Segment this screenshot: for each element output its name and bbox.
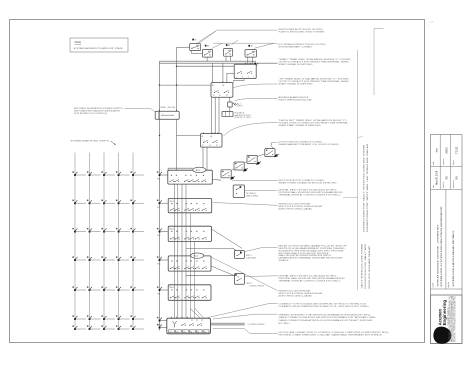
svg-text:checked by: checked by — [453, 180, 455, 188]
pushbutton S1 (shutdown button) — [190, 39, 201, 51]
wire bus drop to TD1 A1 — [211, 63, 213, 82]
LED indicator grid r1c4 — [116, 171, 130, 176]
wire S2 drop to bus — [206, 57, 208, 61]
note no-volume connection — [279, 332, 390, 337]
wire feed to RO1 — [186, 248, 236, 250]
svg-text:8P8C 2: 8P8C 2 — [247, 283, 252, 285]
LED pilot light PL6 on rail — [157, 317, 167, 327]
arrow at K2 — [242, 167, 248, 173]
wire relay column bus 1 — [174, 184, 176, 318]
wire siren to PS2 — [229, 107, 231, 112]
svg-text:May 28, 2014: May 28, 2014 — [437, 170, 439, 185]
title block outline — [431, 135, 463, 344]
note interlock latch relay 2 — [279, 290, 324, 298]
svg-text:RL-1: RL-1 — [196, 170, 200, 172]
svg-text:TS-1 (DEV 4): TS-1 (DEV 4) — [246, 193, 256, 195]
svg-text:S4: S4 — [251, 46, 253, 48]
title block divider v2 upper — [449, 135, 451, 190]
svg-text:BY SFU: BY SFU — [279, 323, 291, 325]
svg-text:X6: X6 — [204, 331, 206, 333]
svg-text:WITH MOMENTARY CONTACT: WITH MOMENTARY CONTACT — [279, 45, 314, 48]
arrow at K1 — [229, 175, 235, 181]
title cell drawn by — [442, 176, 449, 188]
LED indicator grid r4c5 — [130, 256, 144, 261]
note relay output board — [279, 244, 348, 262]
arrow at K3 — [255, 160, 261, 166]
LED pilot light PL5 on rail — [157, 286, 168, 295]
LED indicator grid r7c5 — [130, 325, 144, 330]
svg-text:S1: S1 — [194, 39, 196, 41]
wire feed to DI box — [186, 275, 235, 277]
leader annotation 5 curve — [235, 98, 278, 101]
LED indicator grid r4c1 — [72, 256, 86, 261]
node junction feed at x=176.5 — [176, 84, 177, 85]
bracket line upper — [374, 28, 384, 95]
LED indicator grid r6c1 — [72, 315, 86, 320]
svg-text:6603: 6603 — [444, 147, 448, 154]
LED pilot light PL4 on rail — [157, 256, 168, 265]
svg-text:PIEZO SIREN (STM 6027-A): PIEZO SIREN (STM 6027-A) — [279, 99, 312, 102]
svg-text:RL-5: RL-5 — [170, 287, 174, 289]
leader annotation 12 — [244, 275, 277, 278]
leader S2 tag diagonal — [212, 43, 223, 48]
wire LED column 4 vertical — [118, 153, 120, 330]
LED indicator grid r6c4 — [116, 315, 130, 320]
svg-text:RL-3: RL-3 — [170, 229, 174, 231]
svg-text:INTERLOCK SYSTEM FOR NEUTRON G: INTERLOCK SYSTEM FOR NEUTRON GENERATOR — [440, 206, 443, 287]
note thermo scientific — [279, 313, 377, 324]
digital input box DI-108 — [235, 274, 265, 288]
svg-text:TO CONTROL CONSOLE: TO CONTROL CONSOLE — [248, 324, 265, 326]
LED indicator grid r4c2 — [87, 256, 101, 261]
wire diagonal into TB1 b — [195, 309, 204, 319]
wire horizontal into TD3 — [177, 134, 201, 136]
wire into RL1 coil — [168, 168, 193, 170]
LED indicator grid r6c3 — [101, 315, 115, 320]
svg-text:WHEN MAGNET PRESENT (I.E. DOOR: WHEN MAGNET PRESENT (I.E. DOOR CLOSED) — [279, 143, 339, 146]
logo Acumen blob — [433, 327, 451, 344]
title cell dwg no — [453, 146, 459, 165]
svg-text:X5: X5 — [197, 331, 199, 333]
svg-text:05.28: 05.28 — [430, 22, 434, 24]
wire K3 to K4 — [257, 154, 265, 156]
svg-text:CONNECTIONS FOR “WEST” AND “LA: CONNECTIONS FOR “WEST” AND “LAB” ZONES A… — [366, 143, 369, 232]
note door position — [279, 141, 339, 147]
svg-text:FOR INTERLOCK CONTROL): FOR INTERLOCK CONTROL) — [74, 113, 107, 115]
vertical note group 2 — [361, 243, 371, 289]
leader annotation 2 — [213, 42, 278, 44]
annotation PSU text — [74, 107, 124, 115]
LED indicator grid r6c5 — [130, 315, 144, 320]
LED indicator grid r3c3 — [101, 228, 115, 233]
wire relay column bus 3 — [181, 184, 183, 318]
svg-text:PL2: PL2 — [157, 207, 160, 209]
cable pair to control console — [210, 323, 264, 326]
power adapter PS2 — [222, 112, 252, 120]
wire TD1 pin16 drop — [214, 97, 216, 133]
svg-text:PL4: PL4 — [157, 264, 160, 266]
leader annotation 11 diagonal — [244, 248, 277, 252]
svg-text:PS-2 (DEV 2): PS-2 (DEV 2) — [235, 113, 245, 115]
svg-text:(IDEC RF1V-24VDC-2A2B): (IDEC RF1V-24VDC-2A2B) — [279, 295, 312, 298]
wire LED column 5 vertical — [132, 153, 134, 330]
wire K4 to door annotation — [271, 143, 274, 149]
svg-text:S2: S2 — [207, 45, 209, 47]
svg-text:scale: scale — [433, 161, 435, 165]
label system status LED lights — [71, 140, 116, 145]
wire RL1 to K1 — [212, 178, 221, 181]
wire TD1 to siren — [229, 97, 231, 102]
svg-text:START SIGNAL IS SUPPLIED: START SIGNAL IS SUPPLIED — [279, 83, 314, 86]
latch relay RL2 — [168, 199, 212, 213]
svg-text:INTERLOCK ZONE ARE SIMILAR: INTERLOCK ZONE ARE SIMILAR — [368, 245, 371, 289]
LED indicator grid r3c5 — [130, 228, 144, 233]
wire LED column 2 vertical — [89, 153, 91, 330]
drawing border frame — [10, 20, 425, 343]
LED indicator grid r7c4 — [116, 325, 130, 330]
LED indicator grid r6c2 — [87, 315, 101, 320]
title cell dwg title — [447, 230, 455, 288]
LED pilot light PL3 on rail — [157, 228, 168, 237]
LED indicator grid r2c5 — [130, 200, 144, 205]
title block divider h2 — [431, 188, 463, 190]
leader annotation 9 tick — [343, 197, 358, 199]
latch relay RL5 — [168, 285, 211, 301]
note box — [70, 38, 128, 52]
wire S4 drop to relay TD2 — [248, 57, 253, 64]
title block divider h3 — [431, 288, 463, 290]
wire TD1 pin18 drop — [218, 97, 220, 133]
wire TD1 coil feed y=85.1 — [160, 84, 212, 86]
note motion detector — [279, 179, 338, 185]
LED indicator grid r3c4 — [116, 228, 130, 233]
latch relay RL4 — [168, 253, 211, 271]
svg-text:PS-1B: PS-1B — [161, 107, 167, 109]
LED pilot light PL2 on rail — [157, 200, 168, 209]
note th timer — [279, 78, 350, 86]
svg-text:PL5: PL5 — [157, 294, 160, 296]
LED indicator grid r5c4 — [116, 286, 130, 291]
door contact K2 — [234, 162, 244, 170]
svg-text:PL1: PL1 — [157, 179, 160, 181]
LED indicator grid r3c2 — [87, 228, 101, 233]
leader annotation 1 — [197, 30, 278, 43]
svg-text:X3: X3 — [183, 331, 185, 333]
wire TD2 input link — [227, 73, 234, 82]
note digital input 2 — [279, 275, 346, 283]
wire relay column bus 6 — [194, 242, 196, 319]
leader S3 tag diagonal — [232, 40, 239, 45]
svg-text:S3: S3 — [228, 45, 230, 47]
relay output board RO1 — [235, 251, 257, 260]
svg-text:SYSTEM STATUS LED LIGHTS: SYSTEM STATUS LED LIGHTS — [71, 140, 110, 143]
LED indicator grid r2c4 — [116, 200, 130, 205]
svg-text:PL3: PL3 — [157, 235, 160, 237]
svg-text:TERMINAL STRIP) AT CONTROL CON: TERMINAL STRIP) AT CONTROL CONSOLE IN C9… — [279, 194, 342, 197]
node junction feed at rail — [159, 84, 160, 85]
svg-text:RL-2: RL-2 — [170, 201, 174, 203]
svg-text:TERMINAL STRIP) AT CONTROL CON: TERMINAL STRIP) AT CONTROL CONSOLE IN C9… — [279, 280, 342, 283]
svg-text:PROVIDE 2-PAIR SHIELDED LOW-CA: PROVIDE 2-PAIR SHIELDED LOW-CAP CABLE AN… — [279, 334, 383, 337]
LED indicator grid r1c1 — [72, 171, 86, 176]
title block divider v middle — [445, 189, 447, 289]
logo block outline — [431, 295, 463, 344]
demarcation box TS1 — [233, 185, 258, 198]
note shutdown button — [279, 29, 326, 34]
node junction rail at TD3 row — [159, 135, 160, 136]
title block divider h1 — [431, 165, 463, 167]
LED indicator grid r1c5 — [130, 171, 144, 176]
LED indicator grid r5c5 — [130, 286, 144, 291]
terminal strip TB1 — [167, 317, 211, 334]
revision note marks — [427, 19, 434, 27]
svg-text:CABLE CONNECTOR ADAPTER B-10 (: CABLE CONNECTOR ADAPTER B-10 (3-PIN FEMA… — [279, 319, 374, 322]
leader annotation 8 — [232, 179, 278, 181]
note start timer — [279, 58, 352, 66]
LED indicator grid r4c4 — [116, 256, 130, 261]
svg-text:CABLE CONNECTOR MODULE (HE-XMT: CABLE CONNECTOR MODULE (HE-XMT-10X-PIN F… — [279, 316, 377, 319]
wire horizontal leader bus y=63.2 — [160, 62, 278, 64]
svg-text:WHEN START SIGNAL IS REMOVED: WHEN START SIGNAL IS REMOVED — [279, 124, 322, 127]
wire vertical bus x=176.5 upper — [176, 47, 178, 111]
leader PSU annotation — [125, 109, 156, 112]
svg-text:16: 16 — [209, 145, 211, 147]
LED pilot light PL1 on rail — [157, 171, 168, 180]
title cell project no — [442, 147, 449, 165]
LED indicator grid r5c2 — [87, 286, 101, 291]
wire relay column bus 2 — [177, 184, 179, 318]
timer relay TD3 — [201, 132, 223, 147]
LED indicator grid r5c1 — [72, 286, 86, 291]
leader annotation 15 diagonal — [213, 314, 278, 319]
wire K1 to K2 — [231, 169, 234, 171]
svg-text:16: 16 — [219, 95, 221, 97]
svg-text:CONNECTIONS FOR “VAULT” AND: CONNECTIONS FOR “VAULT” AND — [364, 243, 367, 289]
wire LED column 3 vertical — [103, 153, 105, 330]
vertical note group 1 — [362, 143, 369, 232]
svg-text:18: 18 — [216, 145, 218, 147]
node junction bus2 at x=176.5 — [176, 66, 177, 67]
svg-text:X1: X1 — [170, 331, 172, 333]
note audible alarm — [279, 96, 312, 102]
wire TD3 output drops to RL1 — [203, 147, 207, 170]
wire vertical bus x=176.5 lower — [176, 119, 178, 170]
svg-text:BN: BN — [445, 176, 448, 180]
svg-text:18: 18 — [226, 95, 228, 97]
svg-text:THERMO SCIENTIFIC P 385 NEUTRO: THERMO SCIENTIFIC P 385 NEUTRON GENERATO… — [279, 313, 372, 316]
svg-text:X4: X4 — [190, 331, 192, 333]
latch relay RL3 — [168, 226, 211, 241]
svg-text:SHRUM SCIENCE CENTRE - CHEMIST: SHRUM SCIENCE CENTRE - CHEMISTRY — [437, 224, 439, 287]
note latch set timer — [279, 119, 349, 127]
pushbutton S2 (ext mushroom button) — [202, 45, 212, 57]
svg-text:1: 1 — [427, 19, 428, 21]
svg-text:SYSTEM SHOWN IN “POWER OFF” ST: SYSTEM SHOWN IN “POWER OFF” STATE — [74, 47, 124, 50]
wire relay column bus 5 — [190, 213, 192, 318]
wire left rail vertical — [159, 61, 161, 330]
pushbutton S4 (reset button) — [245, 45, 257, 57]
svg-text:“VAULT” INTERLOCK ZONE SHOWN: “VAULT” INTERLOCK ZONE SHOWN — [361, 243, 364, 289]
logo Acumen wordmark — [437, 300, 449, 326]
leader annotation 10 diagonal — [213, 203, 278, 206]
title block divider v1 upper — [439, 135, 441, 190]
svg-text:Engineering: Engineering — [442, 300, 447, 326]
svg-text:PUSH TO SHUTDOWN, TURN TO RESE: PUSH TO SHUTDOWN, TURN TO RESET — [279, 32, 326, 34]
wire LED column 1 vertical — [74, 153, 76, 330]
svg-text:BN: BN — [456, 176, 459, 180]
svg-text:START SIGNAL IS SUPPLIED: START SIGNAL IS SUPPLIED — [279, 63, 314, 66]
wire K2 to K3 — [244, 161, 247, 163]
svg-text:X2: X2 — [177, 331, 179, 333]
logo address lines — [448, 296, 457, 342]
title cell date — [432, 170, 439, 188]
svg-text:CONTROL CONSOLE: CONTROL CONSOLE — [249, 285, 264, 287]
LED indicator grid r7c1 — [72, 325, 86, 330]
svg-text:CONNECTOR (W JUMPER PINS 21 AN: CONNECTOR (W JUMPER PINS 21 AND 22; IF +… — [279, 305, 369, 308]
bracket line main — [358, 50, 363, 290]
svg-text:T2.02: T2.02 — [455, 146, 459, 154]
timer relay TD2 — [234, 63, 256, 79]
leader annotation 6 curve — [224, 123, 278, 136]
door contact K4 — [265, 149, 275, 157]
door contact K1 — [221, 170, 231, 178]
svg-text:Note: Note — [75, 40, 82, 44]
wire RL3 diagonal to RO1 — [212, 229, 242, 248]
title cell scale — [433, 148, 439, 165]
wire RL4 diagonal to DI box — [211, 266, 235, 276]
leader annotation 7 — [272, 142, 278, 144]
LED indicator grid r2c2 — [87, 200, 101, 205]
leader annotation 16 — [213, 328, 278, 333]
note connect topo — [279, 303, 369, 308]
svg-text:INTERLOCK LATCH RELAY DETAILS: INTERLOCK LATCH RELAY DETAILS — [452, 230, 455, 287]
title cell project name — [432, 206, 443, 288]
leader annotation 9 — [245, 189, 278, 191]
arrow at K4 — [273, 153, 279, 159]
leader S1 tag diagonal — [199, 31, 216, 43]
latch relay RL1 — [168, 167, 213, 184]
wire TD1 pin15 drop — [211, 97, 213, 133]
svg-text:8P8C 1: 8P8C 1 — [246, 255, 251, 257]
wire relay column bus 4 — [185, 184, 187, 318]
svg-text:dwg no: dwg no — [453, 160, 455, 165]
LED indicator grid r3c1 — [72, 228, 86, 233]
LED pilot light PL7 on rail — [157, 324, 167, 329]
wire S1 bottom link to S2 — [192, 51, 203, 54]
wire horizontal bus y=61 — [160, 60, 257, 62]
svg-text:MOUNTED TOP SHELF: MOUNTED TOP SHELF — [235, 117, 251, 119]
svg-text:(IDEC RF1V-24VDC-2A2B): (IDEC RF1V-24VDC-2A2B) — [279, 207, 312, 210]
LED indicator grid r4c3 — [101, 256, 115, 261]
audible alarm AL1 piezo siren — [228, 102, 244, 108]
leader annotation 13 diagonal — [212, 257, 278, 290]
LED indicator grid r2c3 — [101, 200, 115, 205]
LED indicator grid r2c1 — [72, 200, 86, 205]
LED indicator grid r7c3 — [101, 325, 115, 330]
wire horizontal bus y=66.2 — [177, 65, 235, 67]
svg-text:15: 15 — [202, 145, 204, 147]
leader annotation 4 curve — [233, 84, 278, 88]
door contact K3 — [247, 155, 257, 163]
svg-text:SHELF: SHELF — [279, 260, 290, 262]
svg-text:15: 15 — [213, 95, 215, 97]
timer relay TD1 — [211, 81, 233, 97]
leader annotation 14 diagonal — [206, 303, 278, 318]
leader S4 tag diagonal — [254, 43, 273, 48]
LED indicator grid r1c3 — [101, 171, 115, 176]
power supply PS1B — [155, 106, 179, 119]
LED indicator grid r1c2 — [87, 171, 101, 176]
wire bus curve into relay TD2 — [256, 63, 259, 66]
svg-text:WHEN POWER ON AND NO MOTION DE: WHEN POWER ON AND NO MOTION DETECTED — [279, 181, 338, 184]
title block divider h4 — [431, 294, 463, 296]
wire TD2 output to TD1 — [233, 79, 244, 83]
wire S1 feed from vertical bus — [177, 46, 190, 48]
title cell checked by — [453, 176, 459, 188]
pushbutton S3 (start button) — [224, 44, 233, 56]
wire S3 drop to bus — [226, 56, 231, 61]
svg-text:(DEV 1): (DEV 1) — [237, 106, 243, 108]
wire diagonal into TB1 — [190, 309, 200, 319]
svg-text:n/a: n/a — [435, 148, 439, 152]
LED indicator grid r5c3 — [101, 286, 115, 291]
wire bus drop to TD1 A2 — [222, 63, 224, 82]
LED indicator grid r7c2 — [87, 325, 101, 330]
note digital input 1 — [279, 189, 344, 197]
note interlock latch relay 1 — [279, 202, 324, 210]
note ext mushroom button — [279, 44, 326, 49]
svg-text:CONNECTIONS FOR “VAULT” INTERL: CONNECTIONS FOR “VAULT” INTERLOCK ZONE A… — [362, 143, 365, 232]
